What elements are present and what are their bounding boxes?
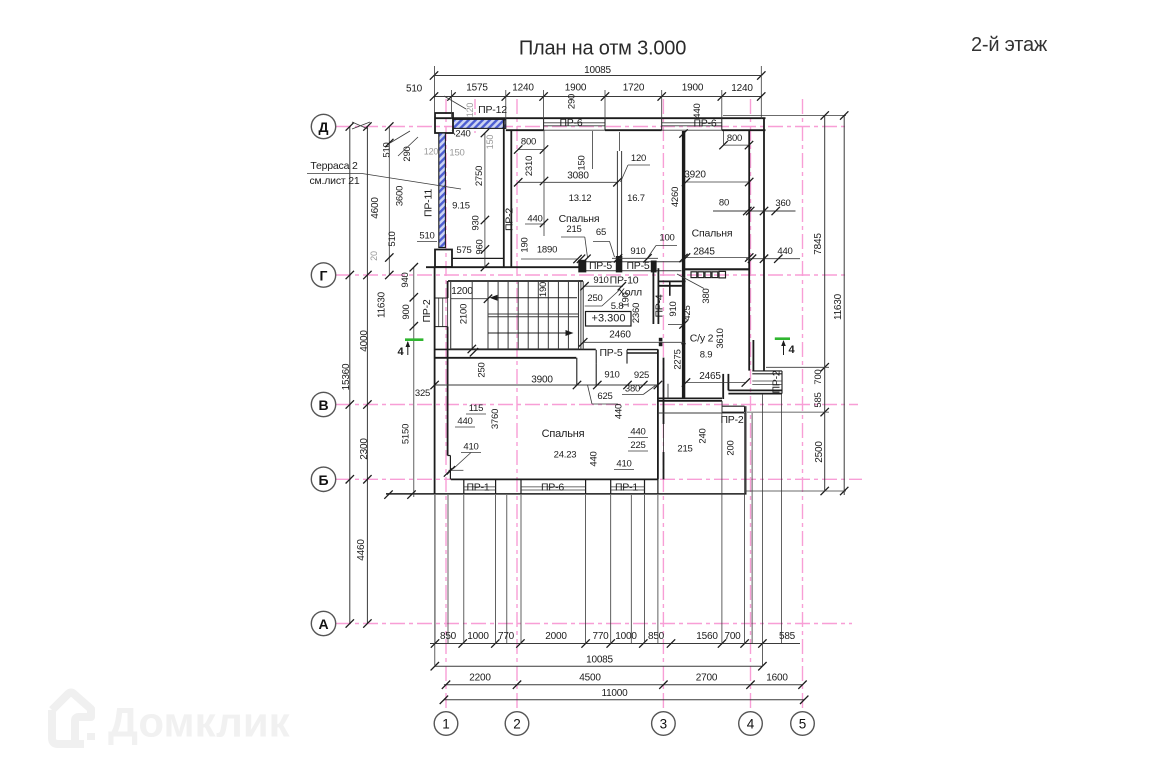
- svg-text:215: 215: [566, 224, 581, 235]
- svg-text:910: 910: [593, 275, 608, 286]
- svg-text:2: 2: [513, 717, 521, 732]
- vent squares: [691, 272, 697, 278]
- svg-text:ПР-5: ПР-5: [589, 260, 612, 272]
- svg-text:215: 215: [677, 444, 692, 455]
- hatched wall PR-11 left (terrace): [439, 133, 446, 248]
- svg-text:1: 1: [442, 717, 450, 732]
- svg-text:900: 900: [401, 304, 412, 319]
- right outer wall: [763, 118, 765, 371]
- svg-text:150: 150: [485, 135, 495, 150]
- svg-text:Терраса 2: Терраса 2: [310, 160, 358, 172]
- svg-text:1000: 1000: [615, 631, 637, 642]
- svg-text:1900: 1900: [565, 83, 587, 94]
- svg-text:925: 925: [634, 370, 649, 381]
- svg-text:В: В: [318, 397, 328, 413]
- svg-text:3080: 3080: [567, 171, 589, 182]
- stairs: [451, 281, 579, 349]
- svg-text:Спальня: Спальня: [542, 428, 585, 440]
- column left at G: [435, 250, 452, 268]
- top dimension line 10085: [434, 75, 761, 77]
- svg-text:План на отм 3.000: План на отм 3.000: [519, 38, 686, 60]
- svg-text:410: 410: [616, 459, 631, 470]
- svg-text:2460: 2460: [609, 330, 631, 341]
- svg-text:2750: 2750: [474, 166, 485, 186]
- terrace bottom thin wall: [452, 257, 504, 259]
- svg-text:3900: 3900: [531, 375, 553, 386]
- svg-text:410: 410: [463, 442, 478, 453]
- svg-text:13.12: 13.12: [569, 193, 592, 204]
- svg-text:Спальня: Спальня: [692, 228, 733, 240]
- svg-text:380: 380: [701, 288, 712, 303]
- svg-text:3760: 3760: [490, 409, 501, 429]
- svg-text:1240: 1240: [512, 83, 534, 94]
- svg-text:440: 440: [457, 416, 472, 427]
- bottom extension lines: [434, 495, 436, 644]
- svg-text:4460: 4460: [356, 539, 367, 561]
- top wall along D: [435, 117, 766, 119]
- svg-text:910: 910: [630, 246, 645, 257]
- svg-text:3610: 3610: [715, 328, 726, 348]
- door squares at PR-4 bottom: [659, 338, 663, 342]
- svg-text:440: 440: [692, 103, 703, 118]
- axis circles numbers: [434, 712, 458, 736]
- svg-text:625: 625: [597, 391, 612, 402]
- svg-text:240: 240: [455, 129, 470, 140]
- svg-text:ПР-12: ПР-12: [478, 104, 507, 116]
- svg-text:440: 440: [777, 246, 792, 257]
- svg-text:4: 4: [747, 717, 755, 732]
- svg-text:2000: 2000: [545, 631, 567, 642]
- svg-text:9.15: 9.15: [452, 201, 470, 212]
- svg-text:ПР-6: ПР-6: [541, 481, 564, 493]
- svg-text:ПР-5: ПР-5: [599, 347, 622, 359]
- svg-text:4500: 4500: [579, 673, 601, 684]
- svg-text:240: 240: [698, 428, 709, 443]
- svg-text:440: 440: [630, 427, 645, 438]
- svg-text:15360: 15360: [341, 363, 352, 390]
- svg-text:ПР-2: ПР-2: [504, 208, 516, 231]
- svg-text:10085: 10085: [584, 65, 611, 76]
- svg-text:Д: Д: [319, 119, 329, 135]
- svg-text:3920: 3920: [684, 170, 706, 181]
- svg-text:120: 120: [424, 147, 439, 157]
- svg-text:510: 510: [382, 142, 393, 157]
- top chain dimensions: [434, 96, 761, 98]
- svg-text:100: 100: [659, 233, 674, 244]
- svg-text:1000: 1000: [467, 631, 489, 642]
- svg-text:360: 360: [775, 198, 790, 209]
- svg-text:С/у 2: С/у 2: [690, 333, 714, 345]
- svg-text:ПР-2: ПР-2: [771, 370, 783, 393]
- right step block with window PR-2: [752, 340, 754, 371]
- svg-text:290: 290: [567, 94, 578, 109]
- wall along G (stair top): [426, 266, 583, 268]
- svg-text:4260: 4260: [670, 187, 681, 207]
- svg-text:ПР-1: ПР-1: [466, 481, 489, 493]
- svg-text:10085: 10085: [586, 655, 613, 666]
- svg-text:24.23: 24.23: [554, 450, 577, 461]
- svg-text:Домклик: Домклик: [108, 699, 291, 746]
- bottom wall along B with windows: [451, 478, 658, 480]
- svg-text:250: 250: [587, 293, 602, 304]
- svg-text:3600: 3600: [395, 186, 406, 206]
- hatched wall PR-12 top: [453, 119, 506, 128]
- partition between rooms 13.12/16.7: [616, 151, 618, 259]
- section mark 4 left: [405, 338, 423, 341]
- svg-text:2200: 2200: [469, 673, 491, 684]
- svg-text:ПР-6: ПР-6: [559, 117, 582, 129]
- wall PR-4 vertical: [652, 262, 654, 324]
- svg-text:2100: 2100: [459, 304, 470, 324]
- svg-text:1890: 1890: [537, 245, 557, 256]
- hall PR-5 door jambs: [595, 350, 597, 364]
- svg-text:770: 770: [592, 631, 609, 642]
- svg-text:440: 440: [589, 451, 600, 466]
- svg-text:510: 510: [419, 231, 434, 242]
- svg-text:8.9: 8.9: [700, 350, 713, 361]
- svg-text:225: 225: [630, 440, 645, 451]
- svg-text:585: 585: [813, 392, 824, 407]
- svg-text:ПР-11: ПР-11: [423, 189, 435, 217]
- svg-text:440: 440: [527, 214, 542, 225]
- svg-text:4600: 4600: [370, 197, 381, 219]
- left dimension lines: [349, 127, 351, 624]
- svg-text:1200: 1200: [451, 286, 473, 297]
- svg-text:Б: Б: [318, 472, 328, 488]
- wall between 16.7 and right bedroom: [682, 131, 685, 398]
- svg-text:3: 3: [660, 717, 668, 732]
- svg-text:190: 190: [520, 237, 531, 252]
- svg-text:120: 120: [631, 153, 646, 164]
- svg-text:910: 910: [668, 301, 679, 316]
- svg-text:11630: 11630: [833, 293, 844, 320]
- svg-text:150: 150: [449, 148, 464, 159]
- svg-text:Холл: Холл: [618, 287, 642, 299]
- svg-text:1560: 1560: [696, 631, 718, 642]
- svg-text:ПР-5: ПР-5: [626, 260, 649, 272]
- svg-text:940: 940: [400, 272, 411, 287]
- svg-text:2310: 2310: [524, 156, 535, 176]
- svg-text:2360: 2360: [631, 303, 642, 323]
- right dimension lines: [824, 116, 826, 492]
- wall PR-2 vertical (terrace right): [503, 118, 505, 267]
- svg-text:850: 850: [648, 631, 665, 642]
- svg-text:910: 910: [604, 370, 619, 381]
- svg-text:20: 20: [369, 251, 379, 261]
- svg-text:11630: 11630: [377, 291, 388, 318]
- svg-text:5150: 5150: [401, 424, 412, 444]
- svg-text:1240: 1240: [731, 83, 753, 94]
- svg-text:2275: 2275: [673, 349, 684, 369]
- svg-text:65: 65: [596, 227, 606, 238]
- axis circles letters: [311, 114, 335, 138]
- svg-text:115: 115: [469, 403, 484, 414]
- svg-text:Г: Г: [320, 268, 328, 284]
- svg-text:700: 700: [813, 369, 824, 384]
- svg-text:1900: 1900: [682, 83, 704, 94]
- stair block bottom wall: [435, 348, 596, 350]
- svg-text:А: А: [318, 616, 328, 632]
- svg-text:440: 440: [614, 404, 625, 419]
- svg-text:200: 200: [726, 440, 737, 455]
- svg-text:ПР-4: ПР-4: [654, 294, 666, 317]
- right bedroom bottom wall: [684, 268, 750, 270]
- svg-text:960: 960: [475, 239, 486, 254]
- pink grid lines: [336, 126, 848, 128]
- svg-text:575: 575: [456, 245, 471, 256]
- svg-text:250: 250: [477, 362, 488, 377]
- svg-text:2300: 2300: [359, 438, 370, 460]
- svg-text:4000: 4000: [359, 330, 370, 352]
- svg-text:190: 190: [538, 282, 549, 297]
- svg-text:510: 510: [387, 231, 398, 246]
- svg-text:ПР-1: ПР-1: [615, 481, 638, 493]
- svg-text:2500: 2500: [814, 441, 825, 463]
- svg-text:425: 425: [682, 305, 693, 320]
- svg-text:ПР-2: ПР-2: [720, 414, 743, 426]
- svg-text:1720: 1720: [623, 83, 645, 94]
- column top-left: [435, 113, 453, 133]
- su2 top wall: [658, 280, 685, 282]
- bedroom/su2 divider vertical: [657, 349, 659, 479]
- svg-text:325: 325: [415, 388, 430, 399]
- svg-text:800: 800: [521, 137, 536, 148]
- svg-text:770: 770: [498, 631, 515, 642]
- bottom-right block walls: [658, 397, 722, 399]
- niche shaft right of bedroom: [576, 358, 578, 385]
- svg-text:16.7: 16.7: [627, 193, 645, 204]
- svg-text:80: 80: [719, 198, 729, 209]
- svg-text:2700: 2700: [696, 673, 718, 684]
- svg-text:5.8: 5.8: [611, 301, 624, 312]
- svg-text:11000: 11000: [601, 688, 628, 699]
- svg-text:см.лист 21: см.лист 21: [309, 175, 359, 187]
- svg-text:150: 150: [577, 155, 588, 170]
- bottom dimension rows: [430, 643, 800, 645]
- svg-text:5: 5: [799, 717, 807, 732]
- svg-text:700: 700: [724, 631, 741, 642]
- svg-text:+3.300: +3.300: [592, 313, 626, 325]
- section mark 4 right: [775, 337, 790, 340]
- svg-text:7845: 7845: [813, 233, 824, 255]
- svg-text:2465: 2465: [699, 371, 721, 382]
- svg-text:2-й этаж: 2-й этаж: [971, 34, 1048, 56]
- svg-text:1575: 1575: [466, 83, 488, 94]
- G door strip PR-5/PR-10: [583, 261, 681, 263]
- svg-text:510: 510: [406, 84, 423, 95]
- svg-text:ПР-2: ПР-2: [421, 299, 433, 322]
- elevation mark: [586, 312, 632, 327]
- svg-text:120: 120: [465, 103, 475, 118]
- left outer wall below G: [434, 267, 436, 494]
- window PR-2 in left wall: [447, 298, 449, 327]
- svg-text:800: 800: [727, 133, 742, 144]
- window PR-2 bottom-right: [722, 405, 745, 407]
- svg-text:1600: 1600: [766, 673, 788, 684]
- svg-text:290: 290: [402, 146, 413, 161]
- svg-text:2845: 2845: [693, 247, 715, 258]
- watermark Domklik: [52, 693, 91, 745]
- svg-text:930: 930: [471, 215, 482, 230]
